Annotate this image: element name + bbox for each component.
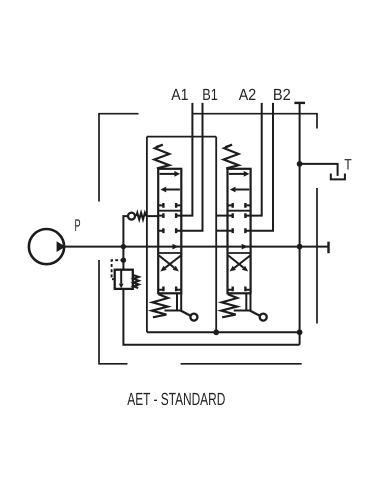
V1 carryover arrow on P line <box>172 244 179 250</box>
V2 actuator linkage channel <box>246 293 250 310</box>
port riser B2 <box>251 103 273 231</box>
valve section 1 spool V1 <box>152 145 198 321</box>
svg-text:A2: A2 <box>239 86 256 104</box>
V2 position-3 crossed arrow 1 <box>230 256 251 272</box>
V2 closed port stubs row1 <box>228 203 251 208</box>
V2 closed port stubs row3 <box>228 228 251 233</box>
relief valve RV1 outlet wire <box>123 289 299 345</box>
P supply line <box>65 246 329 248</box>
svg-text:B2: B2 <box>273 86 291 104</box>
V2 position-3 crossed arrow 2 <box>228 256 248 272</box>
V2 position divider upper <box>228 210 251 212</box>
enclosure boundary top-left <box>99 114 139 202</box>
P line end plug cap <box>327 242 329 254</box>
check valve CV1 ball <box>128 213 135 220</box>
enclosure boundary bottom-left <box>99 260 128 364</box>
wire T branch <box>300 164 338 176</box>
V2 envelope body <box>228 169 251 293</box>
svg-text:P: P <box>75 216 81 235</box>
V2 closed port stubs row2 <box>228 213 251 218</box>
port riser B1 <box>181 103 202 231</box>
wire relief branch <box>122 247 124 270</box>
relief valve RV1 spring <box>133 275 139 288</box>
enclosure boundary right lower <box>316 188 318 324</box>
junction node T branch <box>297 161 303 167</box>
valve section 2 spool V2 <box>221 145 267 321</box>
V2 lever bar <box>234 310 252 312</box>
V1 position-3 crossed arrow 2 <box>159 256 179 272</box>
junction node P-branch <box>121 244 126 249</box>
wire section2 feed <box>216 215 227 217</box>
V1 lever bar <box>165 310 183 312</box>
tank symbol T <box>331 174 345 180</box>
V2 lever ball handle <box>260 314 267 321</box>
enclosure boundary bottom-right <box>181 363 302 365</box>
V1 position divider upper <box>158 210 181 212</box>
V1 lever ball handle <box>190 314 197 321</box>
V2 lever arm <box>250 311 260 317</box>
V2 carryover arrow on P line <box>242 244 249 250</box>
V2 position-1 arrow P-A <box>229 171 250 177</box>
V1 position-3 crossed arrow 1 <box>160 256 181 272</box>
V2 position divider lower <box>228 252 251 254</box>
V1 actuator spring (bottom) <box>152 294 168 317</box>
wire section2 carryover <box>216 230 227 232</box>
junction node bottom gallery <box>297 329 303 335</box>
V1 closed port stubs row1 <box>158 203 181 208</box>
V1 lever arm <box>181 311 192 317</box>
junction node sections <box>213 329 219 335</box>
tank return line <box>299 103 301 345</box>
wire check valve to section 1 <box>147 215 159 217</box>
svg-text:T: T <box>344 157 352 174</box>
junction node pilot tap <box>121 258 126 263</box>
section envelope left edge <box>146 137 148 333</box>
V2 return spring (top) <box>224 145 239 169</box>
V1 actuator linkage channel <box>177 293 181 310</box>
check valve CV1 spring <box>136 213 146 220</box>
V1 position-1 arrow B-T <box>161 187 180 193</box>
V1 envelope body <box>158 169 181 293</box>
section envelope top <box>147 136 216 138</box>
V2 position-1 arrow B-T <box>230 187 249 193</box>
V1 closed port stubs row2 <box>158 213 181 218</box>
junction node P-tank <box>297 244 303 250</box>
svg-text:B1: B1 <box>202 86 218 104</box>
tank line top plug cap <box>294 102 305 104</box>
relief valve RV1 body <box>115 270 133 289</box>
svg-text:AET - STANDARD: AET - STANDARD <box>127 389 225 409</box>
relief valve RV1 pilot line (dashed) <box>112 260 124 279</box>
svg-text:A1: A1 <box>171 86 188 104</box>
bottom tank gallery <box>147 331 300 333</box>
V1 closed port stubs row4 <box>158 287 181 292</box>
V1 position-1 arrow P-A <box>160 171 181 177</box>
V1 position divider lower <box>158 252 181 254</box>
port riser A2 <box>251 103 262 216</box>
pump P1 <box>29 229 66 264</box>
wire check-valve branch riser <box>123 216 127 247</box>
relief valve RV1 flow arrow <box>119 270 124 288</box>
enclosure boundary top-right <box>192 114 317 129</box>
port riser A1 <box>181 103 192 216</box>
section envelope shared boundary <box>215 137 217 333</box>
V1 return spring (top) <box>154 145 169 169</box>
V2 closed port stubs row4 <box>228 287 251 292</box>
V1 closed port stubs row3 <box>158 228 181 233</box>
V2 actuator spring (bottom) <box>221 294 237 317</box>
